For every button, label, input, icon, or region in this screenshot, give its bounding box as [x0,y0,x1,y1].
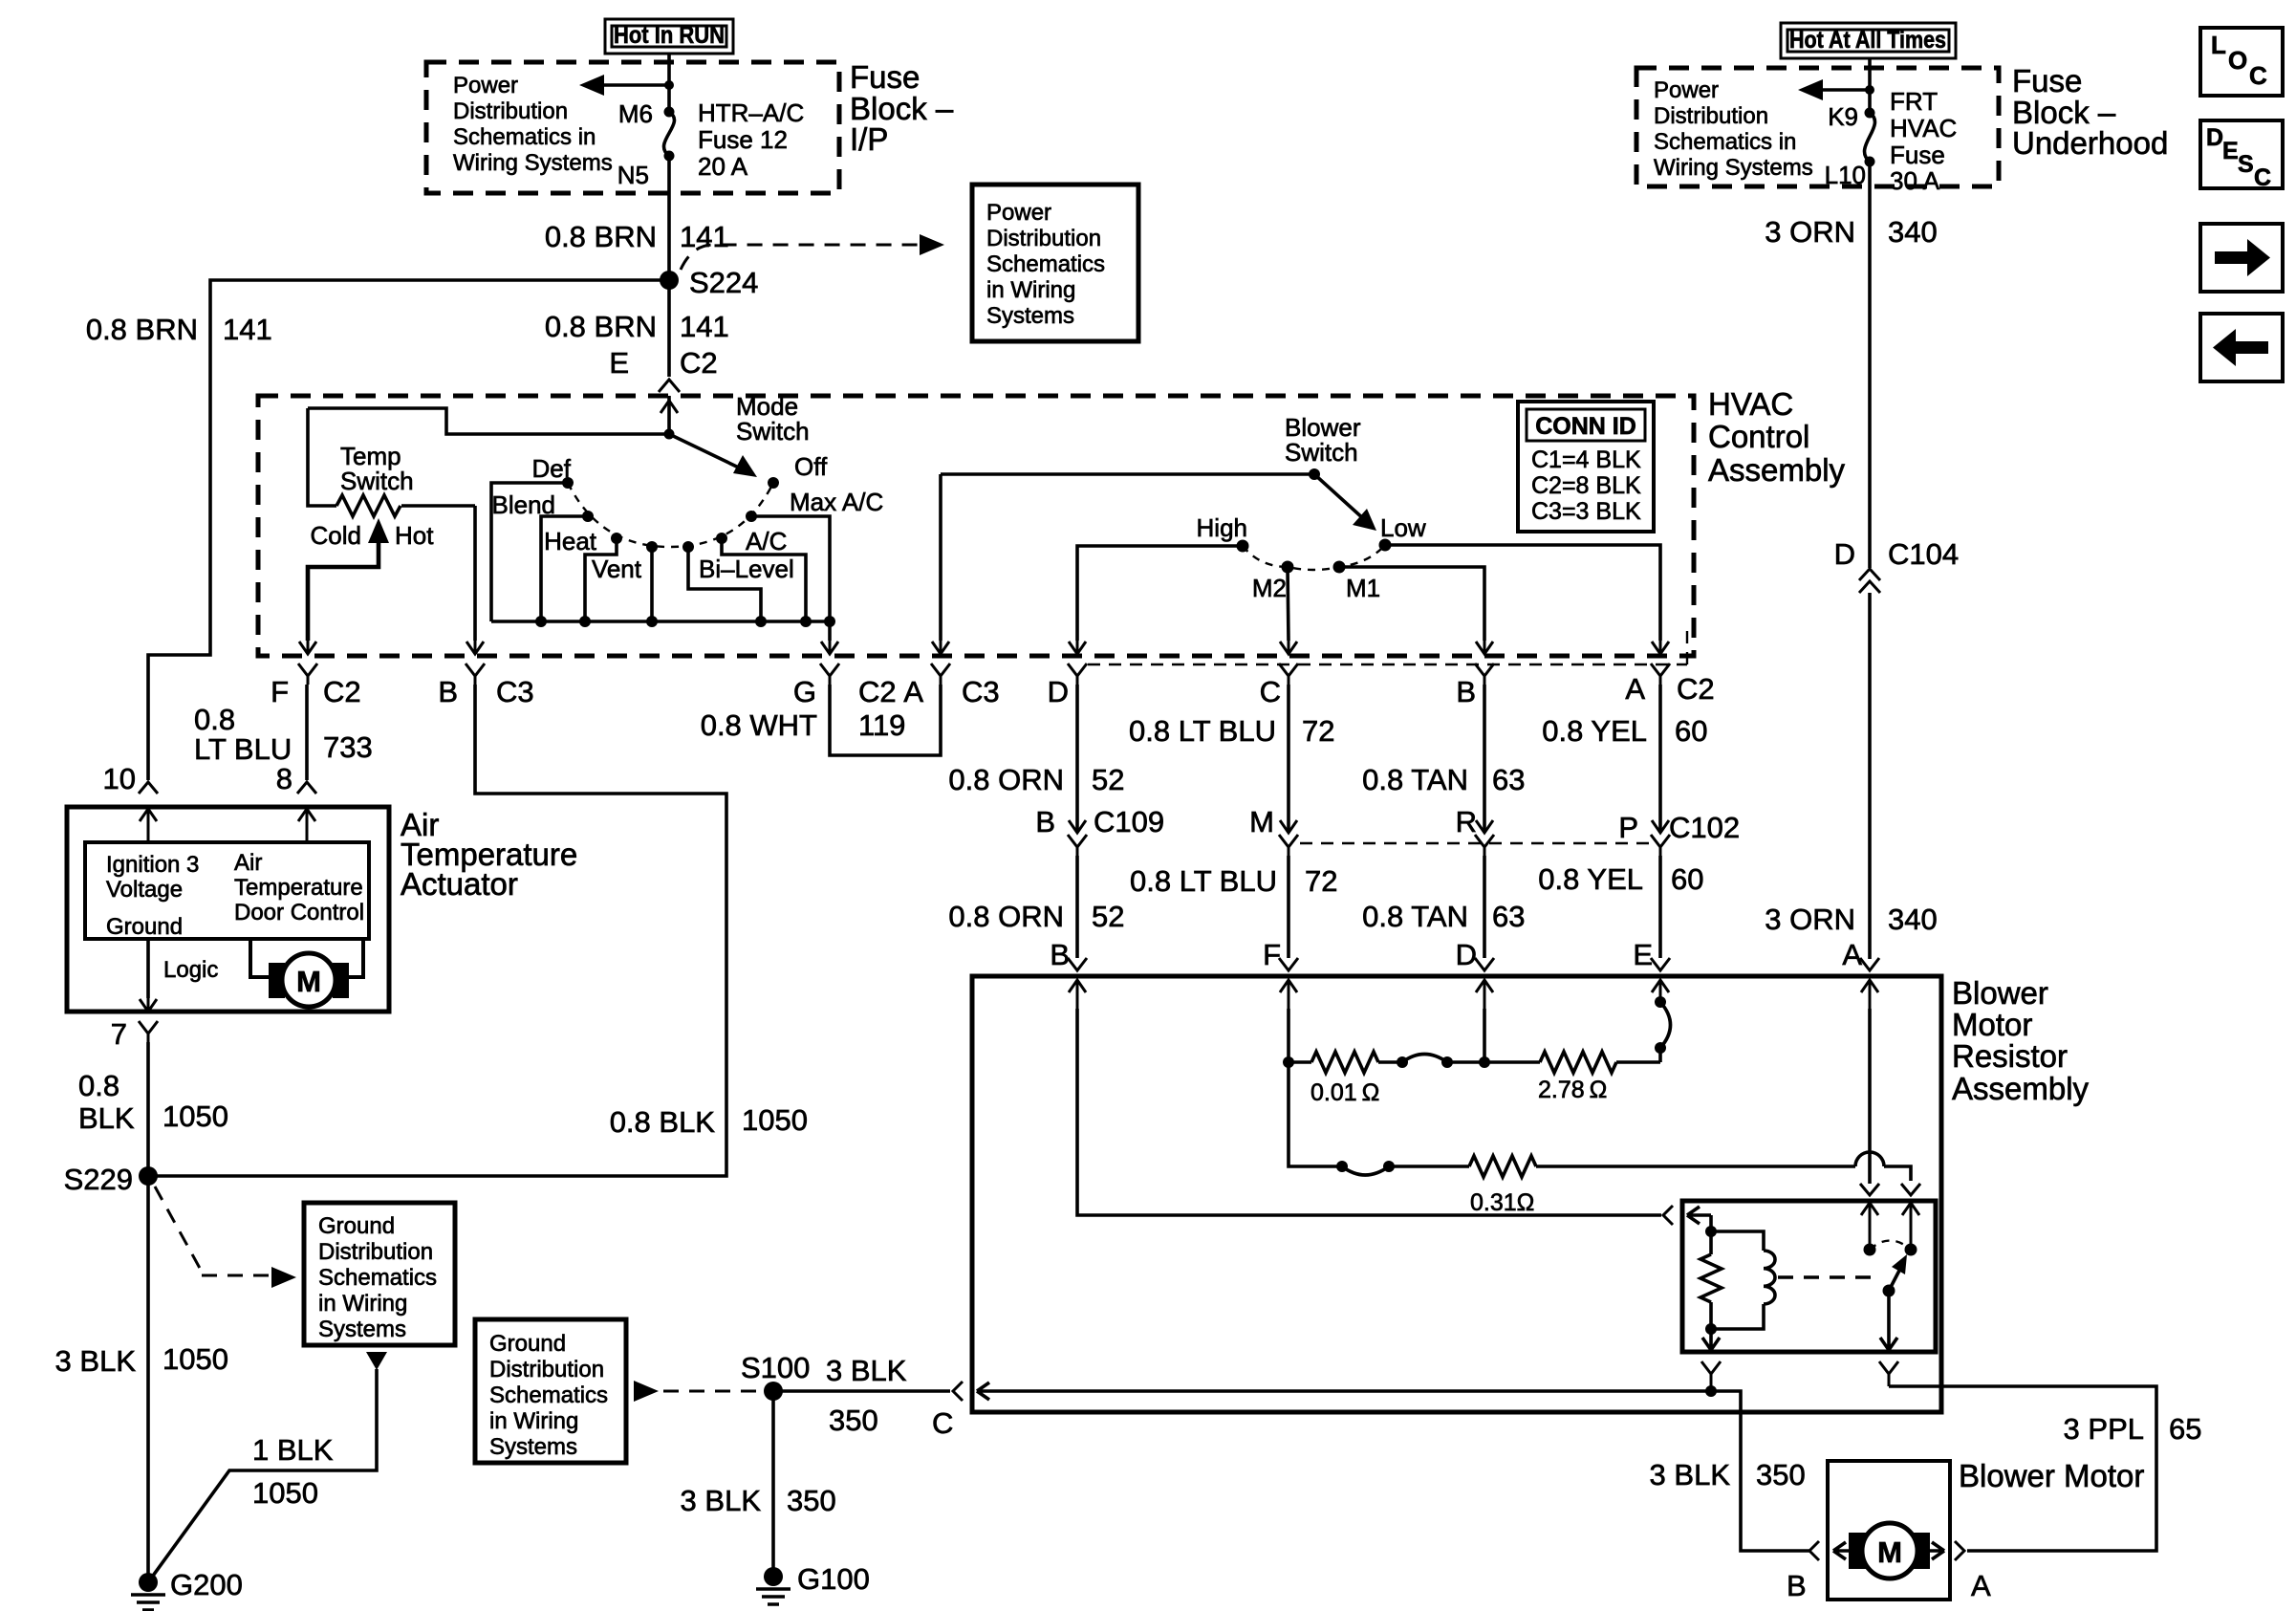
svg-text:0.8 LT BLU: 0.8 LT BLU [1129,714,1276,748]
wire from Hot In RUN to fuse [667,54,671,112]
actuator ground wire pin 7 [111,939,158,1051]
connector M [1249,805,1298,856]
svg-text:G: G [793,675,816,708]
svg-text:HVAC: HVAC [1890,114,1957,142]
svg-text:C3: C3 [962,675,1000,708]
svg-text:119: 119 [858,708,905,742]
splice S229 [64,1163,158,1196]
fuse FRT HVAC 30A [1825,87,1958,195]
svg-text:A: A [1625,672,1645,706]
DESC margin box [2200,120,2283,191]
right arrow margin box [2200,224,2283,292]
svg-text:350: 350 [787,1484,836,1517]
svg-text:M2: M2 [1252,574,1287,602]
connector D C104 [1834,537,1960,593]
wire A column upper [1658,685,1662,833]
ground G100 [756,1562,870,1604]
HVAC bottom edge connectors: female carets below box [298,664,1670,685]
label 0.8 ORN 52 (row1) [948,763,1124,796]
svg-text:C: C [1260,675,1281,708]
resistor 2.78 ohm [1538,1052,1660,1103]
actuator pin arrows inside [140,809,315,842]
relay coil output wire down [1702,1329,1720,1350]
node: D junction [1479,1056,1490,1068]
svg-text:0.8 BRN: 0.8 BRN [545,220,657,253]
svg-text:0.31Ω: 0.31Ω [1470,1189,1534,1216]
svg-text:in Wiring: in Wiring [986,277,1075,303]
svg-text:1050: 1050 [162,1099,228,1133]
svg-text:Vent: Vent [592,555,642,583]
svg-text:3 ORN: 3 ORN [1765,903,1855,936]
label: Fuse Block - I/P [850,59,954,157]
resistor 0.31 ohm [1389,1156,1536,1216]
svg-text:M: M [296,965,321,998]
svg-text:C: C [2249,61,2267,90]
svg-text:0.8 ORN: 0.8 ORN [948,900,1064,933]
splice hop in 0.31 row [1336,1161,1395,1175]
air temperature actuator box [67,807,389,1012]
svg-text:Switch: Switch [736,417,810,446]
svg-text:C: C [932,1406,953,1440]
wire Blend contact [541,516,588,621]
svg-text:Ignition 3: Ignition 3 [106,852,199,878]
svg-text:65: 65 [2169,1412,2201,1446]
node: mode switch feed junction [664,429,675,440]
svg-text:A: A [903,675,923,708]
wire Def contact [491,483,568,621]
label: Temp Switch [340,442,414,495]
wire hot-at-all-times into fuse [1868,58,1872,113]
thin dashed connector face line C102 [1300,842,1650,844]
connector E C2 into HVAC [609,346,717,434]
dashed arrow box2 to S100 [634,1381,765,1402]
svg-text:0.01 Ω: 0.01 Ω [1310,1079,1379,1106]
wire bus to G connector [828,621,832,641]
svg-text:D: D [1048,675,1069,708]
label 0.8 BRN 141 (upper) [545,220,729,253]
svg-text:Distribution: Distribution [1654,103,1768,129]
label 0.8 BRN 141 (left branch) [86,313,272,346]
svg-text:C3=3 BLK: C3=3 BLK [1531,498,1641,525]
temp switch wiper arrow [308,518,389,641]
wire 1 BLK 1050 from G200 to box1 [148,1352,387,1582]
svg-text:C2=8 BLK: C2=8 BLK [1531,472,1641,499]
svg-text:Schematics: Schematics [318,1265,437,1291]
svg-text:Door Control: Door Control [234,900,364,925]
svg-text:Power: Power [453,73,518,98]
svg-text:S100: S100 [741,1351,810,1384]
svg-text:2.78 Ω: 2.78 Ω [1538,1077,1607,1103]
svg-text:Hot: Hot [395,521,434,550]
label 0.8 BLK 1050 (right) [610,1103,808,1139]
svg-text:Wiring Systems: Wiring Systems [453,150,613,176]
svg-text:Def: Def [532,454,572,483]
relay coil (inductor) [1711,1231,1775,1329]
svg-text:I/P: I/P [850,121,888,157]
label: Mode Switch Off [736,392,828,481]
svg-text:340: 340 [1888,903,1938,936]
wire Low to A C2 [1385,545,1660,641]
wire A column lower [1658,856,1662,958]
resistor box top connector letters [1050,938,1862,971]
svg-text:G100: G100 [797,1562,870,1596]
svg-text:M: M [1877,1535,1902,1569]
svg-text:K9: K9 [1828,102,1858,131]
svg-text:Assembly: Assembly [1708,452,1846,488]
splice S224 [660,266,758,299]
wire A (3 ORN) down to relay [1868,1009,1872,1184]
label 0.8 LT BLU 72 (row1) [1129,714,1334,748]
mode switch blade arrow [669,434,757,477]
svg-text:10: 10 [103,762,136,795]
svg-text:Switch: Switch [1285,438,1358,467]
svg-text:C3: C3 [496,675,534,708]
svg-text:Ground: Ground [489,1331,566,1357]
svg-text:63: 63 [1492,900,1525,933]
connector P C102 [1618,811,1740,856]
splice S100 [741,1351,810,1401]
actuator motor M [250,939,363,1007]
wire C104 to blower resistor A [1868,593,1872,959]
node: F junction [1283,1056,1294,1068]
svg-text:C2: C2 [1677,672,1715,706]
wire D down to junction [1483,1009,1486,1062]
svg-text:0.8 YEL: 0.8 YEL [1542,714,1647,748]
svg-text:D: D [1834,537,1855,571]
svg-text:0.8 ORN: 0.8 ORN [948,763,1064,796]
svg-text:8: 8 [276,762,292,795]
label: HVAC Control Assembly [1708,386,1846,488]
svg-text:Motor: Motor [1952,1007,2032,1042]
svg-text:High: High [1197,513,1247,542]
mode position labels [492,454,884,583]
svg-text:Actuator: Actuator [401,866,518,902]
HVAC control assembly dashed box [258,396,1694,656]
label 0.8 YEL 60 (row1) [1542,714,1707,748]
svg-text:C102: C102 [1669,811,1740,844]
blower motor connector A [1929,1541,1991,1602]
CONN ID table [1518,402,1654,532]
wire Vent contact [650,547,654,621]
wire C column upper [1287,685,1290,833]
svg-text:A: A [1971,1569,1991,1602]
wire Heat contact [585,538,617,621]
svg-text:Systems: Systems [986,303,1074,329]
svg-text:C1=4 BLK: C1=4 BLK [1531,446,1641,473]
wire Max A/C contact [751,516,830,621]
svg-text:1050: 1050 [742,1103,808,1137]
svg-text:HTR–A/C: HTR–A/C [698,98,804,127]
svg-text:0.8: 0.8 [78,1069,119,1102]
blower motor resistor assembly box [972,976,1941,1412]
svg-text:20 A: 20 A [698,152,748,181]
svg-text:Air: Air [234,850,262,876]
label: Blower Switch [1285,413,1361,467]
power distribution schematics box (right of S224) [972,185,1138,341]
svg-text:Systems: Systems [489,1434,577,1460]
svg-text:A/C: A/C [746,527,787,555]
dashed arrow S229 to ground distribution box [155,1186,296,1288]
arrow to power distribution (left) [579,75,674,96]
actuator inner logic box [85,842,369,940]
svg-text:B: B [438,675,458,708]
thin dashed connector face line C2 [1088,622,1687,664]
svg-text:Resistor: Resistor [1952,1038,2068,1074]
svg-text:L: L [2211,31,2226,59]
svg-text:350: 350 [1756,1458,1806,1491]
svg-text:1050: 1050 [162,1342,228,1376]
dashed arrow S224 to power distribution box [681,234,944,270]
svg-text:0.8 BRN: 0.8 BRN [86,313,198,346]
blower switch contacts [1237,539,1392,574]
svg-text:7: 7 [111,1017,127,1051]
svg-text:52: 52 [1092,900,1124,933]
svg-text:60: 60 [1671,862,1703,896]
wire F down to 0.01 junction [1287,1009,1290,1062]
relay entry arrows for switch contacts [1861,1203,1919,1250]
label 0.8 BRN 141 (lower) [545,310,729,343]
wire B C3 to S229 (0.8 BLK 1050) [148,685,726,1176]
wire S229 to G200 (3 BLK 1050) [146,1176,150,1582]
svg-text:Assembly: Assembly [1952,1071,2090,1106]
label 3 BLK 350 (horizontal) [826,1354,907,1437]
svg-text:B: B [1787,1569,1807,1602]
wire fuse to S224 [667,156,671,280]
svg-text:BLK: BLK [78,1101,135,1135]
relay switch output down [1880,1291,1897,1350]
svg-text:Low: Low [1380,513,1426,542]
arrow to power distribution (left) [1798,79,1874,100]
svg-text:Hot At All Times: Hot At All Times [1789,27,1946,54]
svg-text:S224: S224 [689,266,758,299]
svg-text:0.8 TAN: 0.8 TAN [1362,900,1468,933]
ground distribution schematics box 2 [475,1319,626,1463]
relay coil network top node [1705,1215,1717,1237]
label 0.8 LT BLU 733 [194,703,373,766]
svg-text:Heat: Heat [544,527,597,555]
svg-text:Max A/C: Max A/C [790,488,883,516]
wire M1 to B [1339,567,1484,641]
svg-text:F: F [271,675,289,708]
resistor box top female carets [1068,958,1879,970]
svg-text:L10: L10 [1825,161,1866,189]
svg-text:Temperature: Temperature [234,875,363,901]
svg-text:FRT: FRT [1890,87,1938,116]
wire S224 left branch 0.8 BRN 141 [148,280,669,780]
svg-text:60: 60 [1675,714,1707,748]
svg-text:C109: C109 [1094,805,1164,838]
fuse HTR-A/C Fuse 12 20A [617,98,805,189]
svg-text:C2: C2 [858,675,897,708]
svg-text:350: 350 [829,1404,878,1437]
resistor box entry arrows (up) [1069,980,1878,1013]
svg-text:0.8 TAN: 0.8 TAN [1362,763,1468,796]
svg-text:A: A [1842,938,1862,971]
svg-text:M: M [1249,805,1274,838]
svg-text:Off: Off [794,452,828,481]
relay resistor (vertical) [1700,1231,1722,1329]
svg-text:E: E [1633,938,1653,971]
wire ground to blower motor B (3 BLK 350) [1710,1391,1809,1551]
svg-text:733: 733 [323,730,373,764]
connector B C109 [1035,805,1164,856]
svg-text:0.8 BRN: 0.8 BRN [545,310,657,343]
connector C into resistor box [932,1382,1710,1440]
wire D column upper [1075,685,1079,833]
svg-text:Systems: Systems [318,1317,406,1342]
svg-text:Distribution: Distribution [489,1357,604,1382]
svg-text:R: R [1456,805,1477,838]
svg-text:S229: S229 [64,1163,133,1196]
wire 0.31 to switch with hop over A wire [1536,1152,1911,1181]
svg-text:3 ORN: 3 ORN [1765,215,1855,249]
wire feed to temp switch [308,408,669,434]
label 0.8 LT BLU 72 (row2) [1130,864,1337,898]
label 3 ORN 340 (lower) [1765,903,1937,936]
label 0.8 YEL 60 (row2) [1538,862,1703,896]
left arrow margin box [2200,314,2283,381]
connector R [1456,805,1494,856]
svg-text:0.8 YEL: 0.8 YEL [1538,862,1643,896]
svg-text:Distribution: Distribution [318,1239,433,1265]
svg-text:D: D [1456,938,1477,971]
svg-text:C104: C104 [1888,537,1959,571]
svg-text:1 BLK: 1 BLK [252,1433,334,1467]
svg-text:Fuse: Fuse [1890,141,1945,169]
svg-text:C2: C2 [323,675,361,708]
wire B column upper [1483,685,1486,833]
svg-text:Cold: Cold [311,521,361,550]
svg-text:Distribution: Distribution [453,98,568,124]
svg-text:3 BLK: 3 BLK [681,1484,762,1517]
svg-text:LT BLU: LT BLU [194,732,292,766]
svg-text:72: 72 [1305,864,1337,898]
connector letters row 1 [271,672,1715,708]
wire B column lower [1483,856,1486,958]
label 0.8 ORN 52 (row2) [948,900,1124,933]
blower motor box [1828,1461,1950,1600]
wire A/C contact [722,538,806,621]
svg-text:F: F [1263,938,1281,971]
svg-text:B: B [1035,805,1055,838]
label 1 BLK 1050 [252,1433,334,1510]
svg-text:G200: G200 [170,1568,243,1601]
relay dashed actuation line [1778,1275,1874,1278]
svg-text:P: P [1618,811,1638,844]
blower motor connector B [1787,1541,1849,1602]
svg-text:C2: C2 [680,346,718,380]
svg-text:Control: Control [1708,419,1809,454]
wire E with splice arc [1655,996,1671,1062]
wire temp switch to B C3 [473,506,477,641]
label 3 PPL 65 [2064,1412,2202,1446]
wire B inside resistor box [1077,1009,1661,1215]
label: Blower Motor Resistor Assembly [1952,975,2090,1106]
svg-text:0.8 WHT: 0.8 WHT [701,708,817,742]
svg-text:Schematics: Schematics [986,251,1105,277]
svg-text:Fuse 12: Fuse 12 [698,125,788,154]
svg-text:Power: Power [1654,77,1719,103]
hot at all times flag box [1781,23,1956,58]
svg-text:in Wiring: in Wiring [489,1408,578,1434]
svg-text:3 PPL: 3 PPL [2064,1412,2144,1446]
wire Bi-Level contact [688,547,761,621]
label: Air Temperature Actuator [401,807,577,902]
wire M2 to C [1288,567,1289,641]
wire F branch down to 0.31 row [1289,1062,1342,1166]
svg-text:Ground: Ground [106,914,183,940]
wire G to A (0.8 WHT 119 jumper) [830,685,941,755]
wire S100 to G100 (3 BLK 350) [771,1391,775,1577]
svg-text:B: B [1050,938,1070,971]
blower switch labels [1197,513,1426,602]
blower switch pivot and blade [1309,468,1376,531]
wire pin7 to S229 [146,1042,150,1176]
svg-text:Underhood: Underhood [2012,125,2168,161]
actuator pin carets [139,782,316,794]
fuse block I/P dashed box [426,62,839,193]
wire D column lower [1075,856,1079,958]
label 3 ORN 340 (top) [1765,215,1937,249]
resistor 0.01 ohm [1289,1052,1402,1106]
HVAC bottom edge connectors: arrows down inside box [299,641,1669,654]
svg-text:0.8 LT BLU: 0.8 LT BLU [1130,864,1277,898]
relay bottom carets [1701,1361,1898,1391]
svg-text:Blower Motor: Blower Motor [1959,1458,2144,1493]
svg-text:63: 63 [1492,763,1525,796]
svg-text:Schematics: Schematics [489,1382,608,1408]
svg-text:141: 141 [680,220,729,253]
svg-text:30 A: 30 A [1890,166,1940,195]
svg-text:Distribution: Distribution [986,226,1101,251]
relay (hi-speed) box [1682,1201,1936,1352]
svg-text:72: 72 [1302,714,1334,748]
blower switch dashed arc [1243,545,1385,570]
svg-text:1050: 1050 [252,1476,318,1510]
svg-text:D: D [2206,124,2223,151]
mode switch dashed arc [568,483,773,547]
label 0.8 TAN 63 (row1) [1362,763,1525,796]
label 3 BLK 350 (motor) [1650,1458,1806,1491]
mode switch contact dots [562,477,779,553]
svg-text:141: 141 [680,310,729,343]
label 0.8 WHT 119 [701,708,906,742]
svg-text:M1: M1 [1346,574,1380,602]
svg-text:Wiring Systems: Wiring Systems [1654,155,1813,181]
relay bottom node [1705,1323,1717,1335]
temp switch potentiometer resistor [308,408,475,516]
svg-text:Schematics in: Schematics in [1654,129,1796,155]
svg-text:C: C [2254,164,2271,191]
svg-text:Voltage: Voltage [106,877,183,903]
svg-text:E: E [609,346,629,380]
svg-text:N5: N5 [617,161,649,189]
svg-text:0.8 BLK: 0.8 BLK [610,1105,716,1139]
svg-text:Fuse: Fuse [2012,63,2082,98]
svg-text:Power: Power [986,200,1051,226]
ground G200 [131,1568,243,1610]
svg-text:0.8: 0.8 [194,703,235,736]
wire to D junction [1447,1060,1540,1064]
blower motor M [1849,1523,1930,1578]
svg-text:Fuse: Fuse [850,59,920,95]
svg-text:141: 141 [223,313,272,346]
node: ground junction under relay [1705,1385,1717,1397]
label 0.8 TAN 63 (row2) [1362,900,1525,933]
relay switch blade [1883,1254,1908,1297]
wire S224 down to E C2 [667,280,671,377]
svg-text:52: 52 [1092,763,1124,796]
